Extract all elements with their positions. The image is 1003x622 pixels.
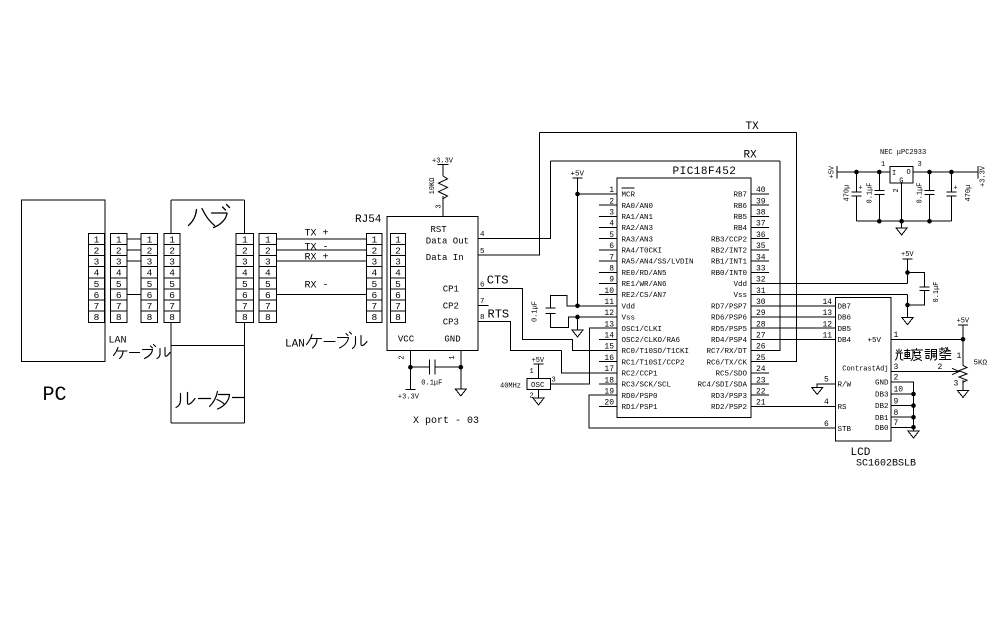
svg-text:+5V: +5V	[571, 171, 585, 179]
U2 pin 11 stub	[599, 305, 617, 307]
wire TX vertical to U2 pin25 RC6/TX/CK	[751, 132, 797, 361]
svg-text:3: 3	[116, 257, 122, 268]
svg-text:RB4: RB4	[733, 225, 747, 233]
svg-text:RE0/RD/AN5: RE0/RD/AN5	[622, 270, 668, 278]
U2 pin 16 stub	[599, 361, 617, 363]
svg-text:3: 3	[436, 204, 444, 208]
U2 pin 39 stub	[751, 204, 769, 206]
capacitor C3 0.1uF	[908, 273, 930, 306]
U2 pin 23 stub	[751, 383, 769, 385]
U2 pin 27 stub	[751, 338, 769, 340]
svg-text:7: 7	[371, 301, 377, 312]
svg-text:20: 20	[604, 399, 614, 408]
connector CN5 (hub right port)	[236, 233, 254, 323]
node C6 bottom	[927, 219, 932, 224]
capacitor C7 470u electrolytic	[946, 172, 956, 221]
svg-text:0.1μF: 0.1μF	[933, 281, 941, 302]
svg-text:34: 34	[756, 253, 766, 262]
svg-text:3: 3	[894, 363, 899, 372]
svg-text:RD2/PSP2: RD2/PSP2	[711, 404, 747, 412]
svg-text:RC1/T10SI/CCP2: RC1/T10SI/CCP2	[622, 359, 685, 367]
svg-text:+5V: +5V	[867, 337, 881, 345]
svg-text:RB1/INT1: RB1/INT1	[711, 259, 748, 267]
ground (LCD R/W)	[812, 388, 823, 395]
capacitor C1 0.1uF	[410, 360, 460, 375]
node Vss junction	[575, 315, 580, 320]
svg-text:5: 5	[94, 279, 100, 290]
U2 pin 22 stub	[751, 394, 769, 396]
svg-text:RD3/PSP3: RD3/PSP3	[711, 393, 748, 401]
wire U2 pin21 to LCD RS	[751, 405, 836, 407]
wire Vss pin31 to ground	[907, 295, 909, 318]
svg-text:3: 3	[609, 209, 614, 218]
wire CN2-CN3 pin2	[127, 249, 141, 251]
U2 pin 21 stub	[751, 405, 769, 407]
svg-text:36: 36	[756, 231, 766, 240]
svg-text:7: 7	[894, 419, 899, 428]
wire U2 pin28 to LCD DB5	[751, 327, 836, 329]
svg-text:+3.3V: +3.3V	[398, 394, 420, 402]
PIC18F452 U2 box	[617, 178, 751, 417]
svg-text:LAN: LAN	[285, 339, 305, 351]
svg-text:1: 1	[94, 234, 100, 245]
svg-text:LAN: LAN	[109, 336, 127, 347]
svg-text:Vdd: Vdd	[622, 303, 636, 311]
svg-text:RB2/INT2: RB2/INT2	[711, 248, 747, 256]
wire +5V input rail	[837, 171, 890, 173]
svg-text:5: 5	[265, 279, 271, 290]
wire LCD DB1 stub	[891, 416, 914, 418]
svg-text:2: 2	[530, 393, 534, 401]
svg-text:7: 7	[265, 301, 271, 312]
svg-text:2: 2	[894, 374, 899, 383]
svg-text:0.1μF: 0.1μF	[532, 301, 540, 322]
svg-text:7: 7	[94, 301, 100, 312]
svg-text:DB0: DB0	[875, 425, 889, 433]
overline MCLR	[622, 187, 635, 189]
node G bottom	[899, 219, 904, 224]
capacitor C4 470u electrolytic	[852, 172, 862, 221]
wire LCD DB2 stub	[891, 405, 914, 407]
svg-text:R/W: R/W	[838, 382, 852, 390]
U2 pin 19 stub	[599, 394, 617, 396]
node C5 bottom	[877, 219, 882, 224]
node C6 top	[927, 170, 932, 175]
svg-text:1: 1	[242, 234, 248, 245]
wire TX+ CN6-CN7	[277, 238, 367, 240]
wire RX- CN6-CN7	[277, 294, 367, 296]
U2 pin 17 stub	[599, 372, 617, 374]
svg-text:+5V: +5V	[957, 318, 970, 326]
wire U2 pin29 to LCD DB6	[751, 316, 836, 318]
svg-text:10KΩ: 10KΩ	[429, 178, 437, 195]
svg-text:RS: RS	[838, 404, 848, 412]
svg-text:RA2/AN3: RA2/AN3	[622, 225, 654, 233]
U2 pin 20 stub	[599, 405, 617, 407]
svg-text:2: 2	[893, 188, 901, 192]
label router (katakana ru-ta-)	[176, 392, 245, 410]
svg-text:X port - 03: X port - 03	[413, 416, 479, 427]
wire RX+ CN6-CN7	[277, 260, 367, 262]
U2 pin 30 stub	[751, 305, 769, 307]
svg-text:35: 35	[756, 242, 766, 251]
svg-text:6: 6	[824, 420, 829, 429]
svg-text:O: O	[907, 169, 911, 177]
svg-text:+5V: +5V	[829, 165, 837, 178]
svg-text:RC4/SDI/SDA: RC4/SDI/SDA	[697, 382, 747, 390]
U2 pin 26 stub	[751, 350, 769, 352]
svg-text:RB6: RB6	[733, 203, 747, 211]
wire RX net	[550, 160, 780, 162]
svg-text:+: +	[859, 185, 863, 193]
U2 pin 10 stub	[599, 294, 617, 296]
svg-text:0.1μF: 0.1μF	[421, 380, 442, 388]
svg-text:37: 37	[756, 220, 766, 229]
label hub (katakana ha-bu)	[189, 205, 230, 228]
wire +3.3V output rail	[913, 171, 978, 173]
capacitor C5 0.1uF	[874, 172, 884, 221]
svg-text:3: 3	[371, 257, 377, 268]
wire U1 pin5 Data In to TX	[478, 132, 540, 255]
power +3.3V (top of R1)	[432, 158, 454, 166]
node C5 top	[877, 170, 882, 175]
svg-text:RA4/T0CKI: RA4/T0CKI	[622, 248, 663, 256]
svg-text:10: 10	[894, 386, 904, 395]
svg-text:8: 8	[169, 312, 175, 323]
capacitor C6 0.1uF	[925, 172, 935, 221]
svg-text:5KΩ: 5KΩ	[974, 360, 988, 368]
wire VCC to +3.3V	[409, 367, 411, 389]
connector CN3 (LAN cable end B)	[141, 233, 158, 323]
svg-text:DB3: DB3	[875, 392, 889, 400]
svg-text:40: 40	[756, 186, 766, 195]
power +3.3V output terminal	[978, 165, 988, 187]
svg-text:CTS: CTS	[487, 274, 509, 288]
svg-text:6: 6	[94, 290, 100, 301]
svg-text:4: 4	[147, 268, 153, 279]
svg-text:7: 7	[147, 301, 153, 312]
svg-text:2: 2	[395, 245, 401, 256]
svg-text:RE1/WR/AN6: RE1/WR/AN6	[622, 281, 668, 289]
svg-text:38: 38	[756, 209, 766, 218]
svg-text:RC7/RX/DT: RC7/RX/DT	[706, 348, 747, 356]
svg-text:+5V: +5V	[901, 251, 914, 259]
svg-text:VCC: VCC	[398, 335, 415, 345]
wire rail to ground	[901, 221, 903, 228]
power +5V (OSC)	[532, 357, 545, 365]
wire R1 to U1 RST pin 3	[442, 196, 444, 216]
svg-text:7: 7	[395, 301, 401, 312]
svg-text:1: 1	[881, 161, 885, 169]
U2 pin 28 stub	[751, 327, 769, 329]
wire Vss pin12 to ground	[578, 317, 618, 330]
svg-text:RST: RST	[431, 225, 448, 235]
svg-text:9: 9	[609, 276, 614, 285]
svg-text:RA1/AN1: RA1/AN1	[622, 214, 654, 222]
svg-text:2: 2	[147, 245, 153, 256]
U2 pin 5 stub	[599, 238, 617, 240]
wire U1 pin4 Data Out to RX	[478, 161, 550, 239]
svg-text:3: 3	[147, 257, 153, 268]
svg-text:DB7: DB7	[838, 303, 852, 311]
node +5V/C3 junction	[905, 270, 910, 275]
regulator U4 uPC2933 box	[890, 167, 913, 183]
svg-text:470μ: 470μ	[843, 185, 851, 202]
svg-text:RA0/AN0: RA0/AN0	[622, 203, 654, 211]
svg-text:1: 1	[957, 352, 962, 361]
wire +5V to OSC pin1	[538, 364, 540, 378]
U2 pin 13 stub	[599, 327, 617, 329]
svg-text:RB0/INT0: RB0/INT0	[711, 270, 748, 278]
svg-text:5: 5	[116, 279, 122, 290]
wire +3.3V to R1	[442, 165, 444, 177]
wire U2 pin31 Vss to ground node	[751, 294, 908, 296]
svg-text:6: 6	[371, 290, 377, 301]
svg-text:2: 2	[242, 245, 248, 256]
U2 pin 6 stub	[599, 249, 617, 251]
wire RX vertical to U2 pin26 RC7/RX/DT	[751, 161, 780, 351]
svg-text:RB5: RB5	[733, 214, 747, 222]
svg-text:16: 16	[604, 354, 614, 363]
U2 pin 31 stub	[751, 294, 769, 296]
svg-text:4: 4	[116, 268, 122, 279]
svg-text:7: 7	[609, 253, 614, 262]
svg-text:RD0/PSP0: RD0/PSP0	[622, 393, 659, 401]
svg-text:15: 15	[604, 343, 614, 352]
svg-text:1: 1	[530, 368, 534, 376]
wire OSC pin2 down	[538, 389, 540, 398]
label LAN cable 1	[109, 336, 171, 359]
svg-text:RD7/PSP7: RD7/PSP7	[711, 303, 747, 311]
wire U2 pin32 Vdd to +5V node	[751, 282, 908, 284]
svg-text:1: 1	[894, 331, 899, 340]
node C4 top	[854, 170, 859, 175]
svg-text:3: 3	[169, 257, 175, 268]
svg-text:40MHz: 40MHz	[500, 382, 521, 390]
U2 pin 40 stub	[751, 193, 769, 195]
svg-text:2: 2	[609, 197, 614, 206]
ground (regulator)	[896, 228, 907, 235]
svg-text:13: 13	[823, 309, 833, 318]
svg-text:13: 13	[604, 320, 614, 329]
connector CN4 (hub left port)	[164, 233, 180, 323]
U2 pin 8 stub	[599, 271, 617, 273]
power +5V input terminal	[829, 165, 838, 178]
svg-text:1: 1	[265, 234, 271, 245]
svg-text:OSC2/CLKO/RA6: OSC2/CLKO/RA6	[622, 337, 681, 345]
svg-text:6: 6	[169, 290, 175, 301]
svg-text:TX +: TX +	[305, 229, 329, 240]
svg-text:4: 4	[94, 268, 100, 279]
svg-text:+: +	[953, 185, 957, 193]
svg-text:5: 5	[371, 279, 377, 290]
svg-text:4: 4	[824, 398, 829, 407]
PC box	[22, 200, 106, 362]
svg-text:3: 3	[918, 161, 922, 169]
wire +5V to pot top	[962, 325, 964, 365]
wire bottom ground rail	[857, 220, 952, 222]
svg-text:23: 23	[756, 376, 766, 385]
node C7 top	[949, 170, 954, 175]
U2 pin 33 stub	[751, 271, 769, 273]
svg-text:8: 8	[116, 312, 122, 323]
svg-text:RC3/SCK/SCL: RC3/SCK/SCL	[622, 382, 672, 390]
svg-text:7: 7	[116, 301, 122, 312]
svg-text:1: 1	[449, 355, 457, 359]
ground (LCD GND chain)	[908, 431, 919, 438]
svg-text:RTS: RTS	[488, 308, 510, 322]
svg-text:2: 2	[399, 355, 407, 359]
svg-text:6: 6	[242, 290, 248, 301]
svg-text:14: 14	[604, 332, 614, 341]
U2 pin 15 stub	[599, 350, 617, 352]
svg-text:CP1: CP1	[443, 285, 459, 295]
svg-text:RA5/AN4/SS/LVDIN: RA5/AN4/SS/LVDIN	[622, 259, 694, 267]
svg-text:TX: TX	[746, 121, 760, 133]
svg-text:OSC1/CLKI: OSC1/CLKI	[622, 326, 663, 334]
svg-text:4: 4	[242, 268, 248, 279]
U2 pin 18 stub	[599, 383, 617, 385]
svg-text:8: 8	[395, 312, 401, 323]
svg-text:+3.3V: +3.3V	[980, 165, 988, 187]
wire ContrastAdj to pot wiper (arrow)	[891, 368, 959, 374]
U2 pin 9 stub	[599, 282, 617, 284]
svg-text:6: 6	[116, 290, 122, 301]
svg-text:RC5/SDO: RC5/SDO	[715, 370, 747, 378]
svg-text:2: 2	[116, 245, 122, 256]
svg-text:8: 8	[609, 264, 614, 273]
svg-text:DB6: DB6	[838, 315, 852, 323]
ground (C3)	[902, 318, 913, 325]
svg-text:9: 9	[894, 397, 899, 406]
svg-text:Vss: Vss	[622, 315, 636, 323]
svg-text:1: 1	[116, 234, 122, 245]
svg-text:1: 1	[169, 234, 175, 245]
wire CN2-CN3 pin1	[127, 238, 141, 240]
svg-text:5: 5	[609, 231, 614, 240]
U2 pin 2 stub	[599, 204, 617, 206]
svg-text:1: 1	[147, 234, 153, 245]
svg-text:PIC18F452: PIC18F452	[673, 166, 737, 178]
svg-text:5: 5	[169, 279, 175, 290]
svg-text:18: 18	[604, 376, 614, 385]
svg-text:1: 1	[371, 234, 377, 245]
ground (PIC Vss)	[572, 330, 583, 337]
wire U1 GND pin1 down	[460, 351, 462, 368]
power +3.3V (U1 VCC)	[398, 390, 420, 402]
svg-text:4: 4	[395, 268, 401, 279]
wire U2 pin30 to LCD DB7	[751, 305, 836, 307]
router box bottom	[171, 422, 244, 424]
svg-text:RD1/PSP1: RD1/PSP1	[622, 404, 659, 412]
wire LCD R/W to ground	[817, 384, 835, 388]
node GND junction	[459, 365, 464, 370]
wire U1 VCC pin2 down	[409, 351, 411, 368]
svg-text:2: 2	[265, 245, 271, 256]
svg-text:RX -: RX -	[305, 281, 329, 292]
wire U2 pin19 RD0 to LCD STB	[589, 395, 836, 428]
svg-text:6: 6	[609, 242, 614, 251]
svg-text:STB: STB	[838, 426, 852, 434]
svg-text:2: 2	[371, 245, 377, 256]
wire +5V rail to MCLR pin1 and Vdd pin11	[578, 178, 618, 306]
svg-text:3: 3	[242, 257, 248, 268]
svg-text:3: 3	[395, 257, 401, 268]
node Vss/C3 junction	[905, 303, 910, 308]
svg-text:5: 5	[242, 279, 248, 290]
X port module U1 box	[387, 216, 478, 350]
svg-text:ContrastAdj: ContrastAdj	[842, 365, 888, 373]
oscillator X1 box	[527, 378, 551, 389]
connector CN1 (PC side)	[89, 233, 105, 323]
svg-text:1: 1	[395, 234, 401, 245]
U2 pin 25 stub	[751, 361, 769, 363]
U2 pin 34 stub	[751, 260, 769, 262]
svg-text:RE2/CS/AN7: RE2/CS/AN7	[622, 292, 667, 300]
svg-text:RC6/TX/CK: RC6/TX/CK	[706, 359, 747, 367]
svg-text:8: 8	[371, 312, 377, 323]
connector CN2 (LAN cable end A)	[111, 233, 128, 323]
U2 pin 12 stub	[599, 316, 617, 318]
U2 pin 36 stub	[751, 238, 769, 240]
U2 pin 38 stub	[751, 215, 769, 217]
wire CTS U1 pin6 to PIC pin15	[478, 289, 617, 351]
wire LCD DB3 stub	[891, 393, 914, 395]
wire +5V to Vdd pin32	[907, 259, 909, 284]
svg-text:8: 8	[242, 312, 248, 323]
node pot/+5V junction	[961, 337, 966, 342]
power +5V (right bypass)	[901, 251, 914, 259]
U2 pin 24 stub	[751, 372, 769, 374]
svg-text:8: 8	[265, 312, 271, 323]
U2 pin 29 stub	[751, 316, 769, 318]
ground (OSC)	[533, 398, 544, 405]
svg-text:8: 8	[894, 409, 899, 418]
svg-text:RD6/PSP6: RD6/PSP6	[711, 315, 748, 323]
svg-text:RC0/T10SO/T1CKI: RC0/T10SO/T1CKI	[622, 348, 690, 356]
svg-text:8: 8	[147, 312, 153, 323]
ground (U1)	[455, 389, 466, 396]
capacitor C2 0.1uF (PIC bypass)	[546, 296, 578, 328]
svg-text:GND: GND	[444, 335, 460, 345]
svg-text:5: 5	[824, 376, 829, 385]
svg-text:5: 5	[395, 279, 401, 290]
node MCLR junction	[575, 192, 580, 197]
svg-text:2: 2	[94, 245, 100, 256]
ground (pot)	[958, 391, 969, 398]
svg-text:CP3: CP3	[443, 318, 459, 328]
wire U4 G pin to bottom rail	[901, 183, 903, 221]
node Vdd junction	[575, 304, 580, 309]
svg-text:RB3/CCP2: RB3/CCP2	[711, 236, 747, 244]
U2 pin 1 stub	[599, 193, 617, 195]
wire LCD DB0 stub	[891, 426, 914, 428]
svg-text:3: 3	[265, 257, 271, 268]
svg-text:10: 10	[604, 287, 614, 296]
svg-text:DB4: DB4	[838, 337, 852, 345]
connector CN8 (X port module)	[391, 233, 406, 323]
wire LCD GND/DB3-DB0 ground chain	[891, 382, 914, 431]
power +5V (PIC)	[571, 171, 585, 179]
svg-text:3: 3	[94, 257, 100, 268]
connector CN6 (LAN cable 2 end A)	[259, 233, 276, 323]
svg-text:11: 11	[823, 332, 833, 341]
wire pot bottom to ground	[962, 380, 964, 390]
svg-text:RX +: RX +	[305, 252, 329, 263]
svg-text:33: 33	[756, 264, 766, 273]
svg-text:RB7: RB7	[733, 192, 747, 200]
wire RTS U1 pin8 to PIC pin17	[478, 321, 617, 373]
